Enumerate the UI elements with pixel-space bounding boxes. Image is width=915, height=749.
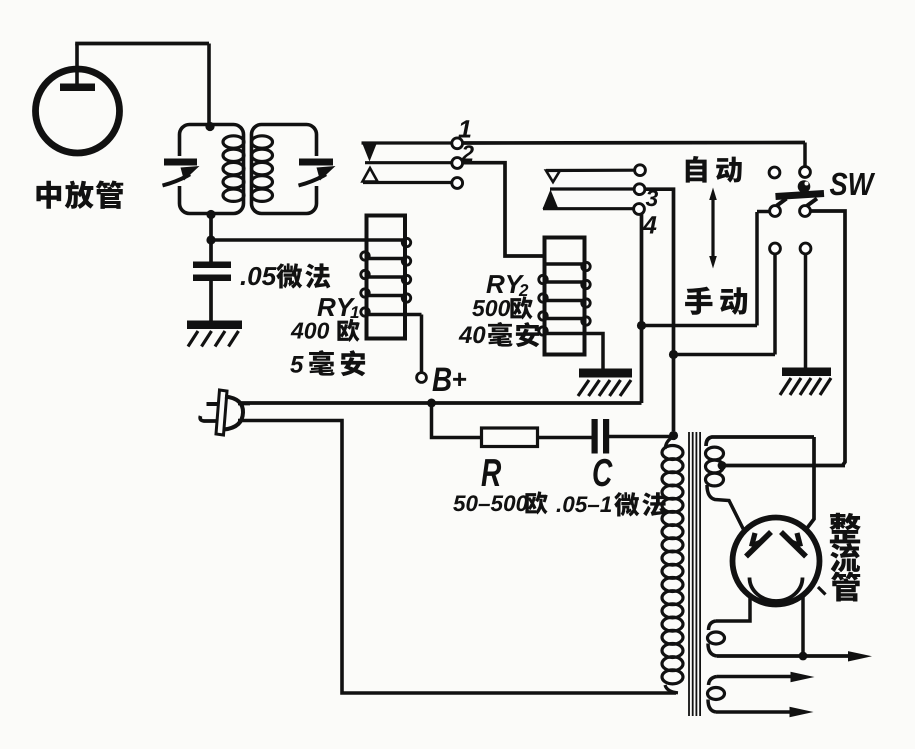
trimmer capacitor on right loop: [309, 156, 324, 186]
6.3V winding output lower arrow: [716, 710, 790, 714]
node A (AVC line junction): [206, 235, 215, 244]
left plate: [746, 532, 771, 557]
transformer core: [688, 432, 690, 716]
wire: SW lower-right throw to ground: [804, 254, 808, 369]
wire: centre tap to SW: [722, 464, 845, 468]
wire: plug upper lead: [238, 402, 250, 406]
RY2 open contact triangle (down): [546, 171, 560, 183]
node: junction on contact-3 bus: [669, 350, 678, 359]
label 手动: [685, 287, 712, 315]
rectifier filament winding: [709, 621, 717, 630]
node: junction with tube lead: [799, 652, 808, 661]
wire: HV top end down to right plate: [805, 437, 815, 532]
wire: C1 to ground: [209, 281, 213, 321]
stray mark: [818, 587, 826, 595]
label SW: [830, 173, 848, 196]
wire: SW pole to HV winding centre tap: [810, 211, 845, 465]
node: junction on contact-4 bus: [637, 321, 646, 330]
label 5毫安: [290, 356, 303, 373]
label 整流管 (vertical): [829, 513, 860, 544]
node: junction primary top: [669, 431, 678, 440]
wire: HT/filament output with arrow: [717, 654, 850, 658]
label RY2: [486, 275, 504, 293]
wire: contact 3 right then down: [645, 189, 674, 431]
wire: to SW pole (manual): [642, 324, 758, 328]
label 1: [458, 120, 470, 137]
label R: [481, 459, 501, 486]
T1 primary coil (loops on right edge of left loop): [223, 136, 244, 148]
wire: contact 1 to SW: [463, 141, 806, 145]
RY1 open contact triangle: [363, 168, 378, 182]
IF transformer T1: left tuned-circuit loop: [180, 125, 244, 214]
wire: mains bus (B+ row): [240, 401, 642, 405]
node: T1 bottom junction: [206, 210, 215, 219]
switch SW contacts: [769, 167, 780, 178]
contact line 3: [550, 187, 634, 190]
wire: branch from junction down to R: [432, 403, 482, 438]
IF transformer T1: right tuned-circuit loop: [252, 125, 317, 214]
RY2 armature (filled triangle up): [543, 190, 559, 210]
T1 secondary coil (loops on left edge of right loop): [252, 136, 273, 148]
wire: C to transformer primary: [609, 435, 671, 439]
contact line (upper): [546, 169, 635, 173]
wire: RY2 bottom to ground: [585, 334, 604, 370]
rectifier tube V2 (整流管): [733, 518, 820, 605]
wire: tube left filament lead: [716, 597, 750, 621]
label C: [593, 459, 612, 487]
relay RY2 coil body: [545, 238, 585, 355]
filament arc: [750, 578, 803, 601]
relay RY1 coil body: [367, 216, 406, 339]
wire: RY1 bottom turn out to B+: [405, 313, 422, 317]
SW lever: [776, 194, 825, 197]
contact line 4: [543, 207, 633, 210]
grid cap bar inside tube: [60, 84, 95, 92]
contact line 2: [365, 161, 452, 164]
label B+: [432, 368, 451, 391]
contact line 1: [362, 141, 453, 144]
label RY1: [317, 298, 335, 316]
wire: T1 bottom down to AVC node: [209, 214, 213, 262]
wire: contact 2 down to relay RY2: [463, 163, 545, 256]
wire: R to C: [538, 436, 592, 440]
node: junction at R branch: [427, 399, 436, 408]
ground (RY2): [579, 369, 632, 378]
HV secondary winding: [706, 437, 814, 446]
capacitor C plates: [592, 419, 598, 454]
wire: vertical down into IF transformer primary: [207, 44, 211, 127]
label 中放管: [36, 181, 61, 209]
value label .05微法: [241, 281, 245, 285]
label 500欧: [472, 300, 485, 316]
node: T1 top junction: [205, 122, 214, 131]
label 40毫安: [459, 326, 472, 343]
wire: tube right filament lead: [801, 596, 805, 656]
wire: to SW lower-left throw: [674, 353, 776, 357]
label 400欧: [291, 323, 304, 339]
RY1 winding turns: [367, 238, 406, 242]
wire: tube top cap lead: [75, 44, 79, 87]
ground (SW): [782, 368, 831, 377]
wire: plug lower lead down and along bottom: [238, 421, 676, 694]
label .05-1微法: [557, 509, 561, 512]
IF amplifier tube V1 (中放管): [36, 69, 120, 153]
wire: AVC line to relay RY1: [211, 238, 366, 242]
wire: contact 4 down to mains bus: [640, 214, 644, 403]
trimmer capacitor on left loop: [172, 156, 187, 186]
label 3: [646, 190, 658, 206]
RY1 contact armature (filled triangle): [362, 142, 378, 162]
RY2 winding turns: [545, 262, 585, 266]
label 自动: [686, 156, 707, 183]
6.3V winding output upper arrow: [717, 675, 793, 679]
right plate: [781, 532, 806, 557]
resistor R: [482, 428, 538, 447]
capacitor C1 (.05 微法): [193, 262, 231, 269]
label 50-500欧: [453, 496, 466, 512]
up/down arrow between 自动 and 手动: [711, 198, 714, 258]
label 2: [461, 145, 474, 161]
wire: top horizontal from tube to IF transformer: [75, 42, 209, 46]
power transformer primary winding: [665, 437, 674, 449]
contact line 3: [363, 181, 452, 184]
6.3V heater winding: [709, 677, 718, 686]
AC plug: [216, 390, 227, 435]
ground (below C1): [187, 321, 242, 330]
terminal B+ circle: [417, 373, 427, 383]
node: centre tap junction: [718, 461, 727, 470]
label 4: [643, 216, 657, 233]
